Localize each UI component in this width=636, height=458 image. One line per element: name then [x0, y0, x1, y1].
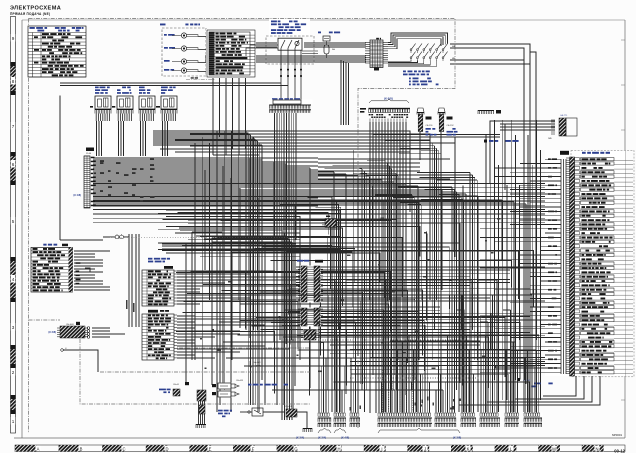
svg-text:B: B — [80, 446, 83, 451]
svg-text:СН-443: СН-443 — [236, 380, 244, 382]
svg-text:СА-771: СА-771 — [560, 114, 568, 117]
svg-text:СЕ-152: СЕ-152 — [447, 125, 455, 127]
svg-text:2: 2 — [12, 370, 15, 375]
svg-text:F: F — [252, 446, 255, 451]
svg-text:(К 3/8): (К 3/8) — [453, 436, 461, 440]
svg-text:A: A — [37, 446, 40, 451]
svg-text:9: 9 — [12, 36, 15, 41]
svg-text:(К 4/8): (К 4/8) — [73, 193, 81, 197]
svg-text:6: 6 — [12, 162, 15, 167]
svg-text:D: D — [165, 446, 168, 451]
svg-text:(К 3/4): (К 3/4) — [296, 436, 304, 440]
svg-text:4: 4 — [12, 277, 15, 282]
svg-text:ПРЯМАЯ ПОДАЧА (NE): ПРЯМАЯ ПОДАЧА (NE) — [10, 12, 50, 16]
svg-text:ЭЛЕКТРОСХЕМА: ЭЛЕКТРОСХЕМА — [10, 6, 61, 12]
svg-text:(К 4/8): (К 4/8) — [341, 436, 349, 440]
svg-text:(К 3/4): (К 3/4) — [318, 436, 326, 440]
svg-text:M: M — [552, 446, 556, 451]
svg-text:СА-459: СА-459 — [253, 361, 261, 364]
svg-text:H: H — [337, 446, 340, 451]
svg-text:G: G — [294, 446, 297, 451]
svg-text:СЕ-151: СЕ-151 — [426, 125, 434, 127]
svg-text:NP0001: NP0001 — [612, 433, 623, 437]
svg-text:00-12: 00-12 — [614, 449, 625, 454]
svg-text:C: C — [122, 446, 125, 451]
svg-text:7: 7 — [12, 124, 15, 129]
svg-text:K: K — [467, 446, 470, 451]
svg-text:1: 1 — [12, 419, 15, 424]
svg-text:3: 3 — [12, 325, 15, 330]
svg-text:J: J — [424, 446, 426, 451]
svg-text:N: N — [595, 446, 598, 451]
svg-text:I: I — [381, 446, 382, 451]
svg-text:8: 8 — [12, 79, 15, 84]
svg-text:СН-44: СН-44 — [173, 384, 180, 386]
svg-text:СА-461: СА-461 — [285, 405, 293, 408]
svg-text:(К 3/8): (К 3/8) — [48, 330, 56, 334]
svg-text:5: 5 — [12, 219, 15, 224]
svg-text:E: E — [209, 446, 212, 451]
svg-text:19-40: 19-40 — [86, 153, 92, 155]
